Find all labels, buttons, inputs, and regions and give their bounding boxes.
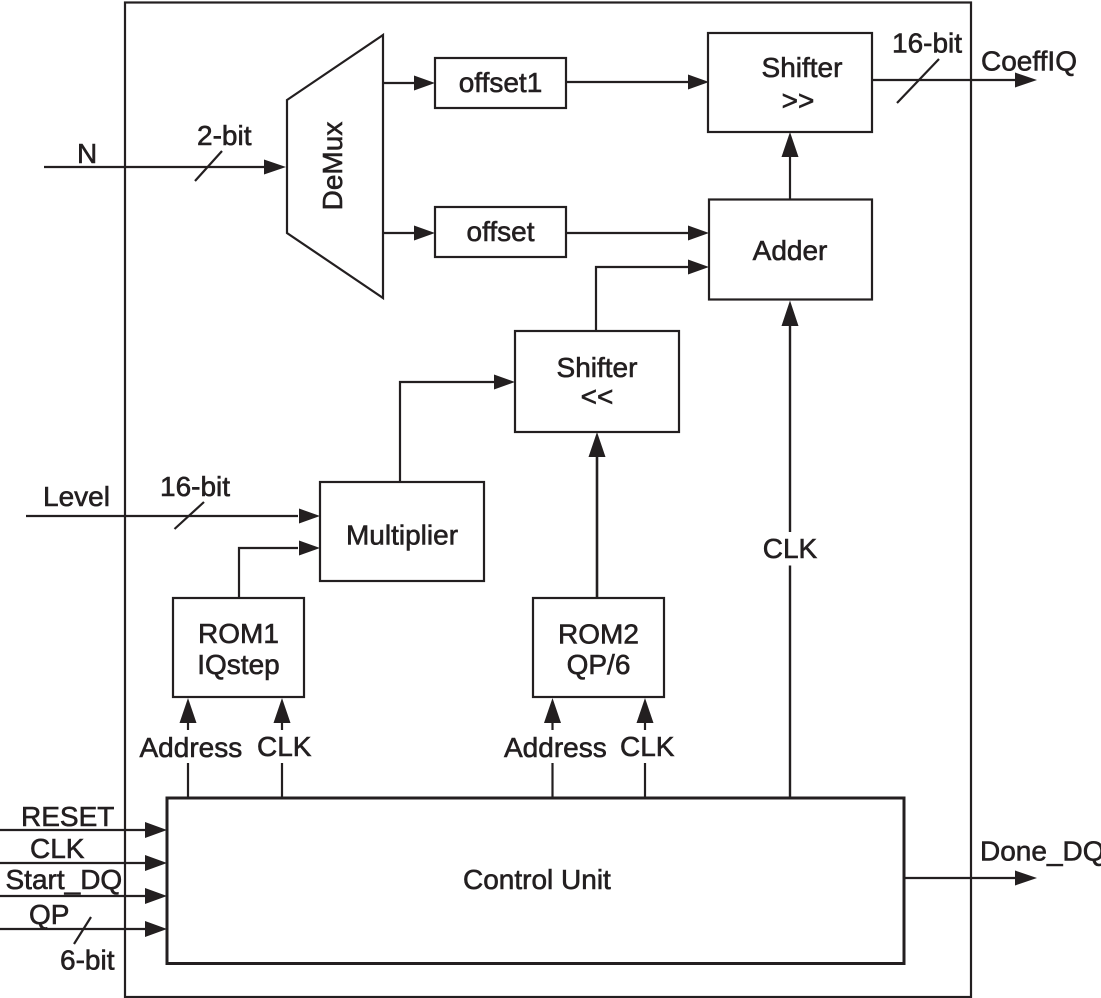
- arrowhead rom2 address: [544, 698, 561, 723]
- control unit U6 box: [167, 798, 904, 964]
- svg-text:CLK: CLK: [30, 833, 85, 864]
- wire offset1 to shifter-right: [566, 81, 689, 83]
- wire N input: [44, 166, 267, 168]
- wire Done_DQ output: [904, 877, 1016, 879]
- svg-text:>>: >>: [782, 85, 815, 116]
- svg-text:<<: <<: [581, 381, 614, 412]
- wire shifter-right output CoeffIQ: [872, 79, 1016, 81]
- wire CLK to adder upper segment: [789, 324, 791, 532]
- svg-text:Shifter: Shifter: [557, 352, 638, 383]
- shifter U4 left-shift box: [515, 331, 679, 432]
- svg-text:ROM1: ROM1: [198, 618, 279, 649]
- arrowhead adder to shifter-right: [782, 132, 799, 157]
- arrowhead shifter-left to adder: [688, 260, 709, 275]
- wire slash 6-bit: [74, 917, 91, 944]
- wire rom1 to multiplier: [239, 548, 298, 597]
- wire demux to offset: [383, 232, 415, 234]
- svg-text:Multiplier: Multiplier: [346, 520, 458, 551]
- svg-text:Address: Address: [504, 732, 607, 763]
- wire demux to offset1: [383, 82, 415, 84]
- wire slash 2-bit: [195, 151, 222, 181]
- svg-text:CLK: CLK: [257, 731, 312, 762]
- arrowhead rom2 to shifter-left: [589, 432, 606, 457]
- wire multiplier to shifter-left: [400, 382, 494, 482]
- arrowhead Start_DQ: [145, 888, 167, 904]
- arrowhead N to demux: [264, 160, 286, 175]
- wire rom2 address stem: [551, 723, 553, 730]
- arrowhead offset1 to shifter-right: [688, 75, 709, 90]
- arrowhead RESET: [145, 822, 167, 838]
- svg-text:Adder: Adder: [753, 235, 828, 266]
- wire offset to adder: [566, 232, 689, 234]
- svg-text:CoeffIQ: CoeffIQ: [981, 46, 1077, 77]
- svg-text:ROM2: ROM2: [558, 619, 639, 650]
- shifter U2 right-shift box: [708, 33, 872, 132]
- wire slash 16-bit output: [897, 59, 939, 103]
- wire rom1 clk stem: [281, 723, 283, 730]
- arrowhead CLK in: [145, 855, 167, 871]
- wire rom2 to shifter-left stem: [596, 456, 599, 597]
- multiplier U5 box: [320, 482, 484, 581]
- register offset box: [435, 207, 566, 257]
- svg-text:QP: QP: [29, 899, 69, 930]
- arrowhead CoeffIQ: [1015, 73, 1037, 88]
- arrowhead Level to multiplier: [299, 509, 320, 524]
- wire Level input: [26, 515, 298, 517]
- wire rom2 clk stem: [644, 723, 646, 730]
- svg-text:offset1: offset1: [459, 67, 543, 98]
- svg-text:16-bit: 16-bit: [892, 28, 962, 59]
- arrowhead rom1 to multiplier: [299, 541, 320, 556]
- svg-text:Address: Address: [140, 732, 243, 763]
- wire slash 16-bit level: [175, 502, 205, 529]
- rom ROM1 box: [173, 598, 304, 697]
- svg-text:CLK: CLK: [763, 533, 818, 564]
- arrowhead rom1 address: [180, 698, 197, 723]
- svg-text:Start_DQ: Start_DQ: [6, 864, 123, 895]
- arrowhead demux to offset: [414, 226, 435, 241]
- arrowhead offset to adder: [688, 226, 709, 241]
- outer border frame: [125, 3, 971, 998]
- rom ROM2 box: [533, 598, 664, 697]
- svg-text:N: N: [77, 138, 97, 169]
- svg-text:RESET: RESET: [21, 801, 114, 832]
- arrowhead rom1 clk: [274, 698, 291, 723]
- svg-text:DeMux: DeMux: [317, 122, 348, 211]
- adder U3 box: [709, 200, 872, 300]
- arrowhead CLK to adder: [782, 301, 799, 327]
- wire rom1 address stem: [187, 723, 189, 730]
- demux U1 trapezoid: [287, 35, 383, 298]
- wire QP input: [0, 928, 147, 930]
- wire adder to shifter-right: [789, 156, 791, 199]
- svg-text:offset: offset: [467, 216, 535, 247]
- arrowhead QP: [145, 921, 167, 937]
- wire Start_DQ input: [0, 895, 147, 897]
- wire CLK input: [0, 862, 147, 864]
- svg-text:Level: Level: [43, 481, 110, 512]
- svg-text:16-bit: 16-bit: [160, 471, 230, 502]
- wire CLK to adder lower segment: [789, 566, 791, 798]
- svg-text:2-bit: 2-bit: [197, 120, 252, 151]
- arrowhead multiplier to shifter-left: [494, 375, 515, 390]
- arrowhead demux to offset1: [414, 76, 435, 91]
- wire shifter-left to adder: [596, 267, 689, 331]
- svg-text:IQstep: IQstep: [197, 649, 279, 680]
- svg-text:Control Unit: Control Unit: [463, 864, 611, 895]
- svg-text:6-bit: 6-bit: [60, 945, 115, 976]
- svg-text:Done_DQ: Done_DQ: [980, 836, 1101, 867]
- arrowhead Done_DQ: [1015, 871, 1037, 886]
- svg-text:QP/6: QP/6: [567, 649, 631, 680]
- register offset1 box: [435, 58, 566, 108]
- svg-text:CLK: CLK: [620, 731, 675, 762]
- svg-text:Shifter: Shifter: [762, 52, 843, 83]
- wire RESET input: [0, 829, 147, 831]
- arrowhead rom2 clk: [637, 698, 654, 723]
